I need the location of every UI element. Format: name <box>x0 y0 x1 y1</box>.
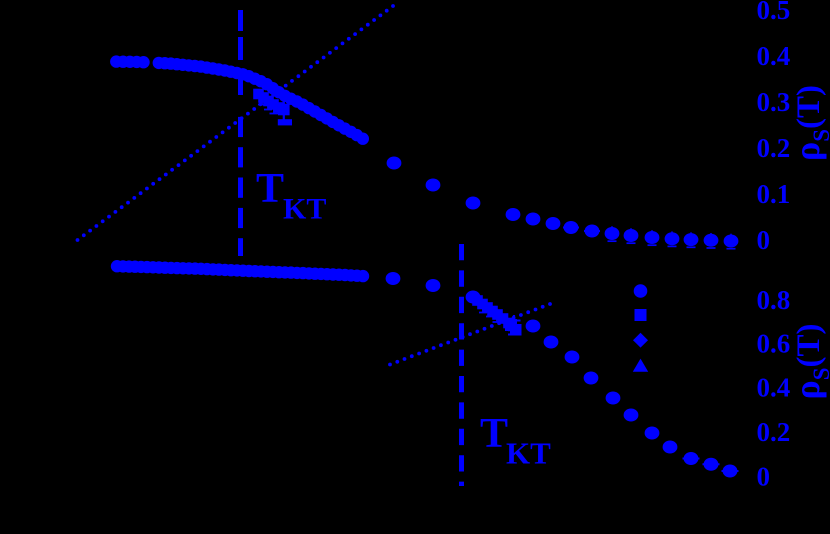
svg-text:0.8: 0.8 <box>757 285 791 315</box>
top panel: dense band of superfluid-density data points (overlapping L-series markers) <box>110 55 369 145</box>
svg-text:T: T <box>256 166 284 212</box>
svg-text:0: 0 <box>757 225 771 255</box>
legend: diamond marker (system size L3) <box>633 333 648 348</box>
svg-text:0.2: 0.2 <box>757 417 791 447</box>
svg-text:0.3: 0.3 <box>757 87 791 117</box>
bottom panel: dashed vertical line at T_KT <box>459 244 464 486</box>
svg-text:0.5: 0.5 <box>757 0 791 25</box>
legend: triangle marker (system size L4) <box>633 359 648 372</box>
svg-text:0.6: 0.6 <box>757 329 791 359</box>
top panel: discrete data points approaching zero (with small error bars at tail) <box>387 157 738 249</box>
svg-text:0.4: 0.4 <box>757 373 791 403</box>
bottom panel: finite-size-scaling points with error bars near the KT jump <box>473 296 521 335</box>
svg-text:0.2: 0.2 <box>757 133 791 163</box>
legend: circle marker (system size L1) <box>634 284 648 298</box>
top panel: dashed vertical line at T_KT <box>238 10 243 256</box>
svg-text:0: 0 <box>757 462 771 492</box>
bottom panel: dotted 2T/pi KT-criterion line <box>388 302 552 366</box>
bottom panel: dense band of superfluid-density data points <box>111 260 369 282</box>
svg-text:ρS(T): ρS(T) <box>787 323 830 399</box>
bottom panel: label T_KT <box>480 411 551 471</box>
svg-text:KT: KT <box>506 436 551 471</box>
legend: square marker (system size L2) <box>635 309 647 321</box>
top panel: finite-size-scaling points with error bars near the KT jump <box>254 89 292 125</box>
svg-text:T: T <box>480 411 508 457</box>
svg-text:KT: KT <box>283 193 326 226</box>
bottom panel: discrete data points approaching zero <box>386 273 738 478</box>
top panel: label T_KT <box>256 166 326 226</box>
top panel: dotted 2T/pi KT-criterion line <box>76 4 395 242</box>
svg-text:ρS(T): ρS(T) <box>787 85 830 161</box>
svg-text:0.1: 0.1 <box>757 179 791 209</box>
svg-text:0.4: 0.4 <box>757 41 791 71</box>
